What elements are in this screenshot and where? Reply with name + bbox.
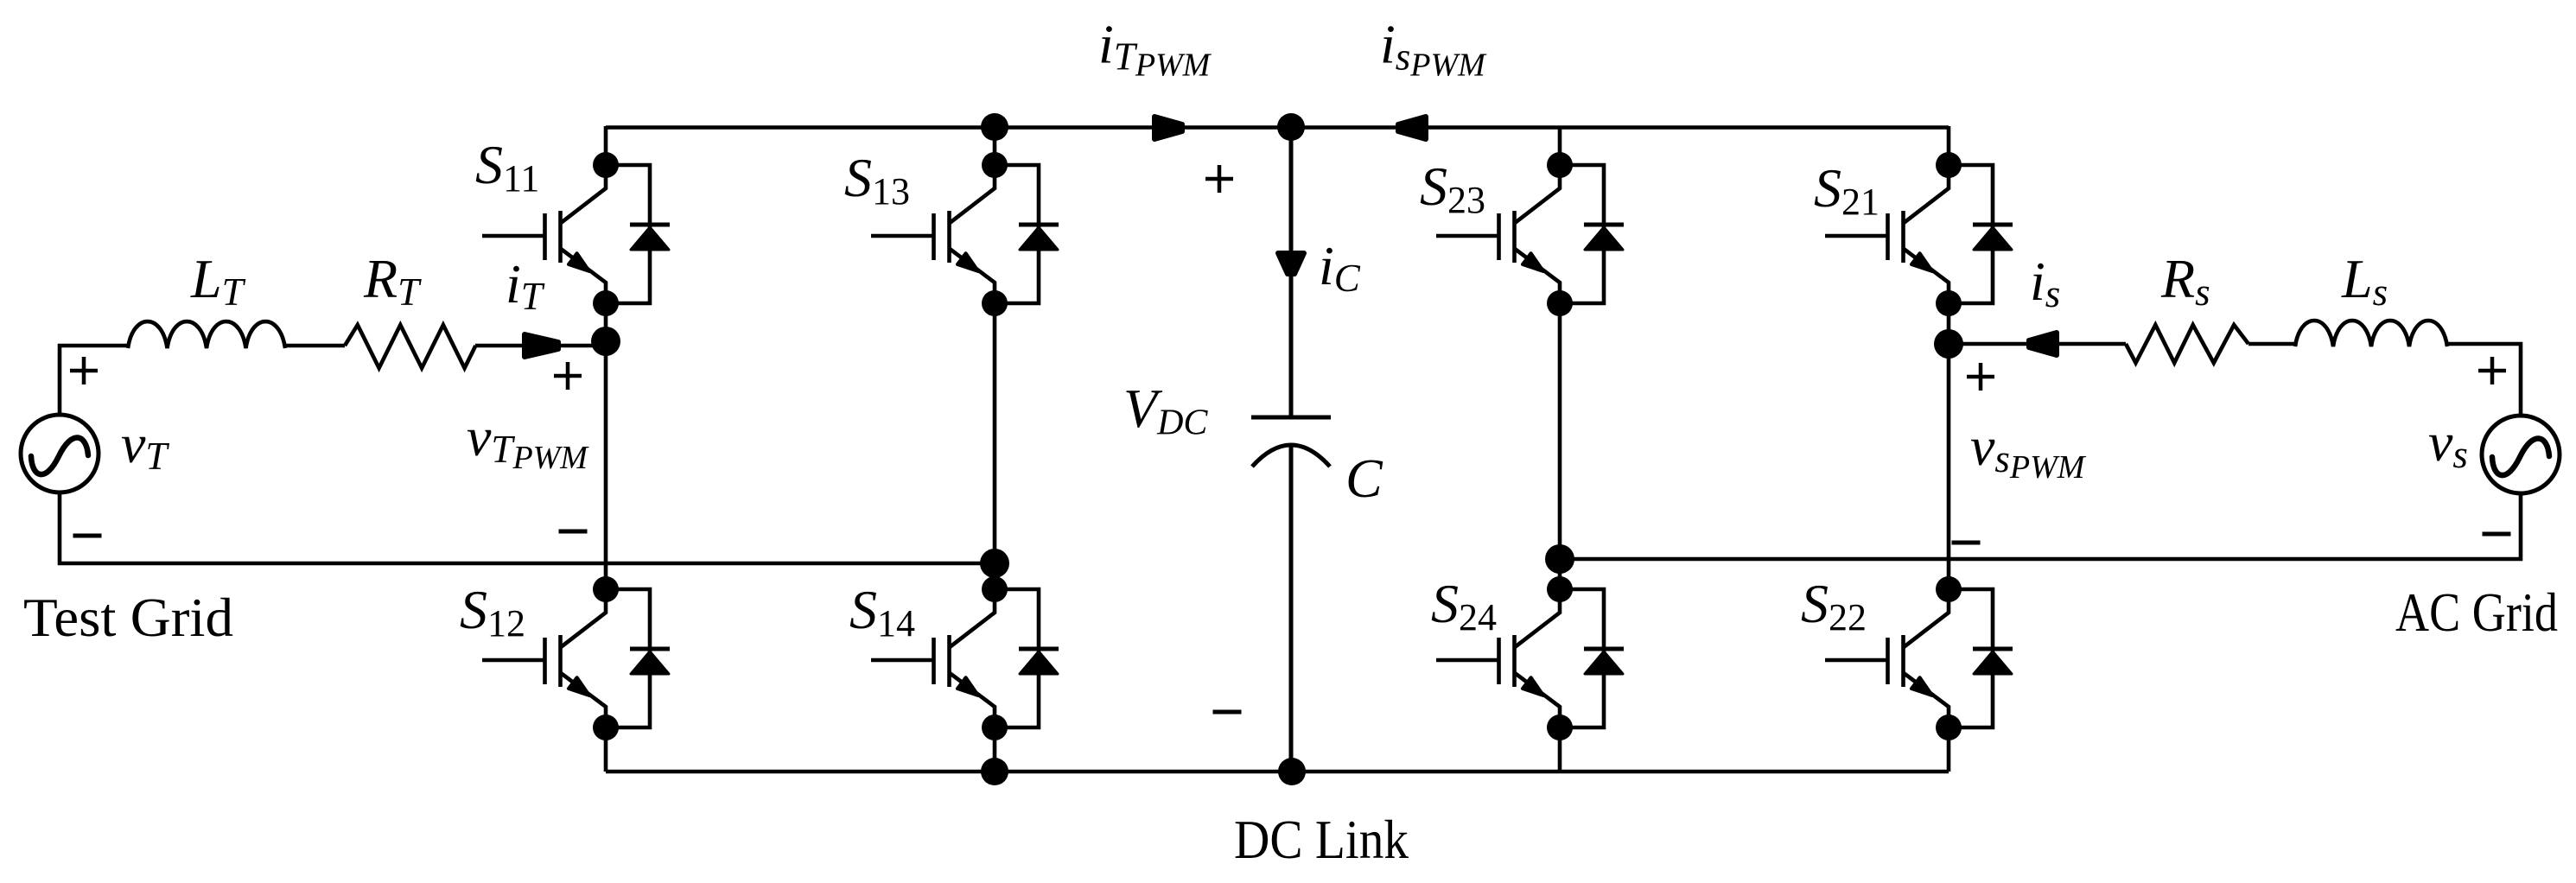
svg-text:Rs: Rs [2160,248,2210,314]
svg-text:vT: vT [121,413,169,478]
svg-text:vTPWM: vTPWM [467,406,589,476]
svg-text:isPWM: isPWM [1380,14,1487,84]
svg-text:RT: RT [363,248,422,314]
svg-text:S22: S22 [1801,573,1867,638]
svg-text:iC: iC [1319,235,1361,300]
svg-text:vs: vs [2428,411,2468,476]
svg-text:vsPWM: vsPWM [1970,416,2087,486]
svg-text:S23: S23 [1420,156,1485,221]
svg-text:DC Link: DC Link [1234,810,1409,870]
svg-text:VDC: VDC [1123,378,1208,443]
svg-text:LT: LT [190,248,246,314]
svg-text:S11: S11 [475,134,539,200]
svg-text:Test Grid: Test Grid [23,588,233,648]
svg-text:iT: iT [506,253,545,318]
svg-text:Ls: Ls [2341,248,2388,314]
svg-text:S13: S13 [844,147,910,213]
svg-text:is: is [2030,251,2060,315]
svg-text:iTPWM: iTPWM [1098,14,1212,84]
svg-text:S21: S21 [1814,157,1880,223]
svg-text:S14: S14 [849,579,915,645]
svg-text:AC Grid: AC Grid [2395,582,2558,643]
svg-text:S24: S24 [1431,573,1497,638]
svg-text:S12: S12 [460,579,525,645]
svg-text:C: C [1345,448,1383,509]
